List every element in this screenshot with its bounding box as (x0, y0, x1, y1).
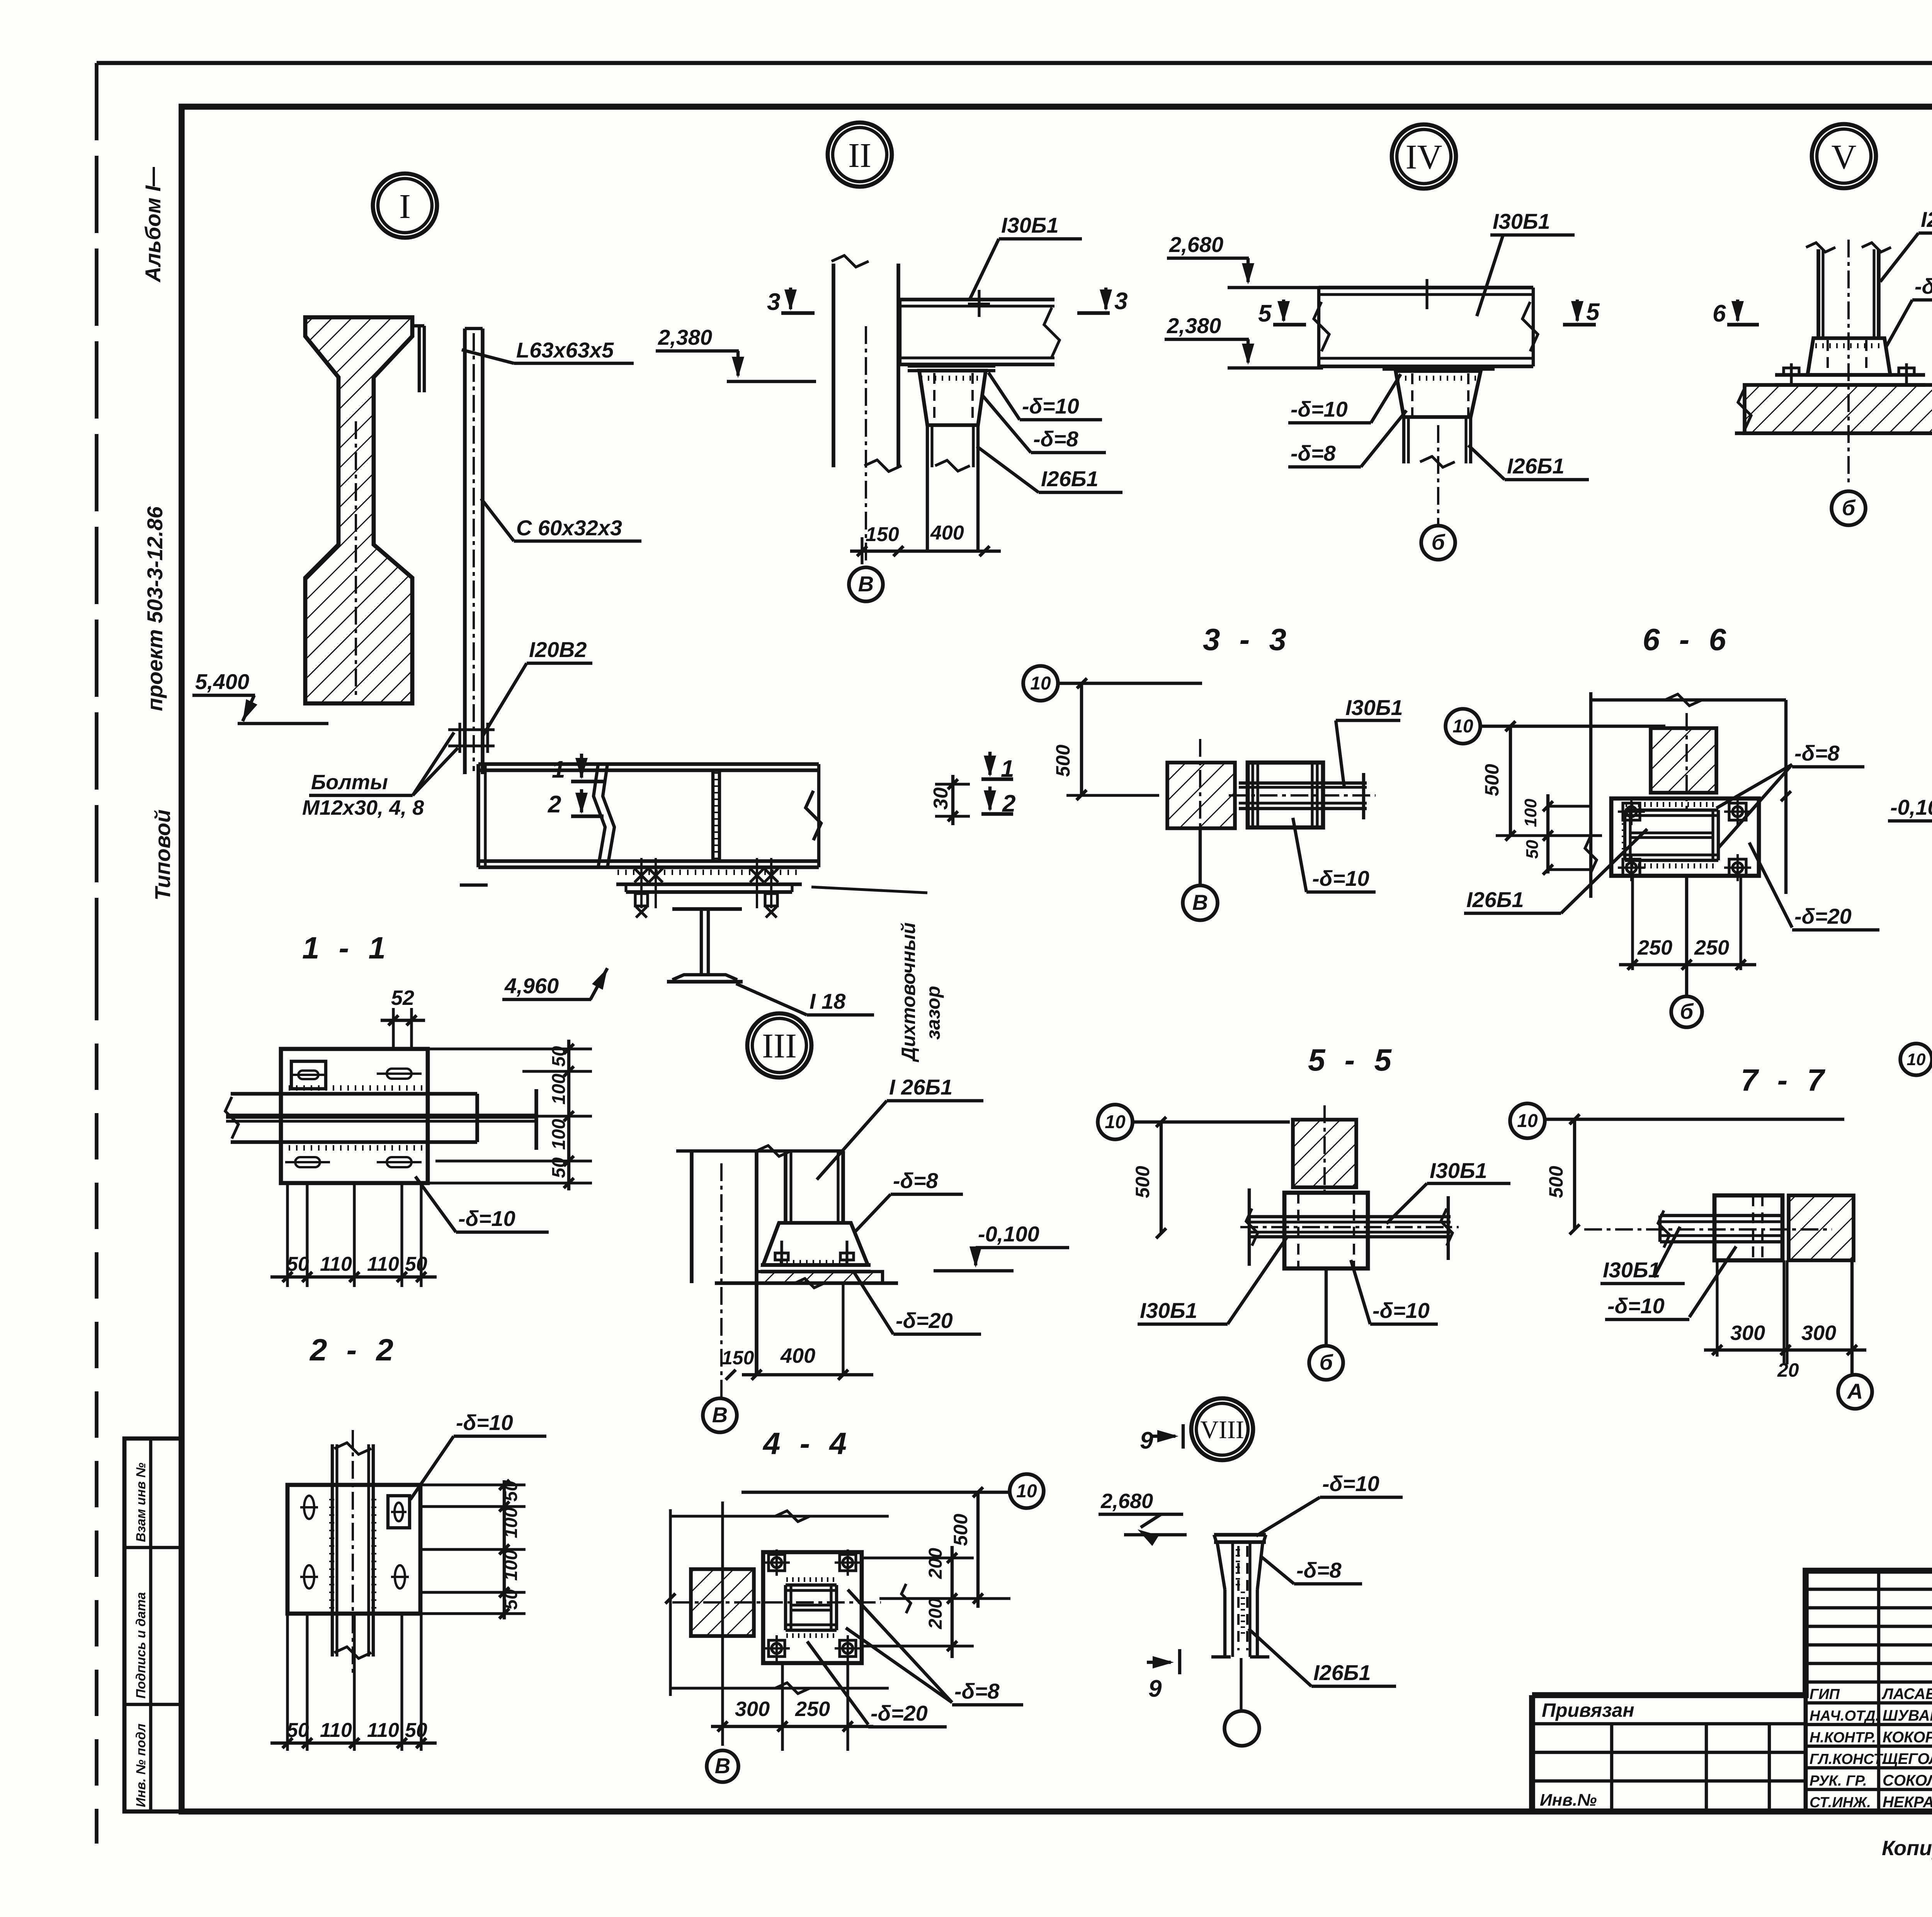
svg-text:-δ=10: -δ=10 (1372, 1298, 1430, 1323)
svg-text:-δ=10: -δ=10 (1022, 394, 1079, 418)
node III marker circle (747, 1013, 811, 1078)
svg-text:52: 52 (391, 986, 414, 1010)
svg-text:50: 50 (405, 1719, 427, 1742)
svg-text:Дихтовочный: Дихтовочный (898, 923, 919, 1062)
svg-text:НАЧ.ОТД.: НАЧ.ОТД. (1810, 1708, 1879, 1724)
svg-text:300: 300 (1730, 1321, 1765, 1345)
svg-text:500: 500 (1132, 1166, 1153, 1198)
svg-text:б: б (1680, 999, 1694, 1023)
svg-text:110: 110 (320, 1719, 352, 1742)
node II column (832, 264, 835, 467)
node IV bracket trapezoid (1383, 368, 1495, 371)
svg-text:250: 250 (1637, 936, 1672, 959)
section 3-3 beam flanges (1239, 781, 1367, 785)
section 1-1 right dimension chain 50-100-100-50 (567, 1040, 570, 1190)
svg-text:-δ=8: -δ=8 (1794, 741, 1840, 765)
node IV axis circle b (1421, 526, 1455, 560)
node II column centre line (865, 326, 867, 565)
section 2-2 right dimension chain (503, 1480, 506, 1619)
node V anchor bolts (1790, 363, 1793, 385)
svg-text:2: 2 (548, 791, 561, 818)
node I channel lower end (460, 884, 488, 887)
svg-text:ШУВАЕВ: ШУВАЕВ (1883, 1707, 1932, 1724)
section 1-1 dimension 52 (392, 1008, 395, 1049)
node IV beam I30B1 (1319, 286, 1533, 289)
svg-text:6 - 6: 6 - 6 (1643, 622, 1731, 657)
node IV support below (1402, 417, 1405, 463)
section 7-7 bottom dimensions 300-300-20 (1716, 1260, 1718, 1357)
section 1-1 gusset plate (281, 1049, 428, 1183)
svg-text:500: 500 (950, 1514, 971, 1546)
svg-text:-δ=8: -δ=8 (893, 1168, 939, 1193)
svg-text:I26Б1: I26Б1 (1313, 1660, 1371, 1685)
node I marker circle (373, 174, 437, 238)
svg-text:В: В (1192, 890, 1208, 914)
svg-text:-δ=20: -δ=20 (1794, 904, 1852, 928)
node III wall (690, 1151, 694, 1283)
section 4-4 base plate plan (763, 1552, 862, 1663)
node I beam I20V2 bottom flange (478, 859, 819, 863)
svg-text:2,680: 2,680 (1169, 232, 1223, 257)
svg-text:4 - 4: 4 - 4 (762, 1426, 852, 1461)
svg-text:КОКОРЕВ: КОКОРЕВ (1883, 1729, 1932, 1746)
svg-text:СОКОЛЬЦОВ: СОКОЛЬЦОВ (1883, 1772, 1932, 1789)
svg-text:150: 150 (866, 523, 899, 546)
svg-text:2,380: 2,380 (658, 325, 712, 349)
node II bearing plate (908, 364, 995, 368)
section 1-1 bottom dimension 50-110-110-50 (270, 1275, 437, 1279)
left stamp boxes (124, 1439, 182, 1811)
section 1-1 slot holes (387, 1069, 412, 1079)
section 6-6 left extension line (1589, 692, 1592, 898)
svg-text:I30Б1: I30Б1 (1140, 1298, 1197, 1323)
svg-text:3 - 3: 3 - 3 (1203, 622, 1292, 657)
section 6-6 concrete column hatched (1651, 728, 1716, 793)
svg-text:20: 20 (1777, 1359, 1799, 1381)
svg-text:I30Б1: I30Б1 (1430, 1158, 1487, 1183)
section 3-3 concrete column hatched (1167, 763, 1235, 828)
node III column I26B1 (784, 1151, 787, 1223)
svg-text:-δ=8: -δ=8 (954, 1679, 1000, 1703)
section 3-3 connection plate (1248, 763, 1323, 827)
svg-text:Альбом I: Альбом I (141, 185, 165, 283)
svg-text:200: 200 (925, 1598, 946, 1629)
section 4-4 axis lines (721, 1502, 724, 1746)
section 1-1 corner stiffener detail (291, 1061, 326, 1089)
svg-text:9: 9 (1140, 1427, 1153, 1454)
svg-text:3: 3 (767, 289, 780, 315)
svg-text:30: 30 (930, 787, 952, 810)
title block signature grid (1804, 1571, 1808, 1811)
section 4-4 axis circle V (707, 1750, 738, 1782)
svg-text:А: А (1847, 1379, 1863, 1403)
node II marker circle (828, 123, 892, 187)
node V axis circle b (1832, 491, 1866, 525)
svg-text:I 26Б1: I 26Б1 (889, 1075, 952, 1099)
node V bracket trapezoid (1808, 338, 1890, 375)
svg-text:НЕКРАСОВА: НЕКРАСОВА (1883, 1794, 1932, 1811)
svg-text:50: 50 (549, 1157, 569, 1178)
svg-text:РУК. ГР.: РУК. ГР. (1810, 1773, 1867, 1789)
svg-text:9: 9 (1148, 1675, 1162, 1702)
node II section mark 3 right (1104, 288, 1107, 309)
svg-text:I30Б1: I30Б1 (1493, 209, 1550, 233)
svg-text:110: 110 (320, 1253, 352, 1275)
node I splice lower plate (626, 890, 792, 894)
svg-text:-0,100: -0,100 (1890, 795, 1932, 819)
svg-text:50: 50 (501, 1589, 521, 1610)
svg-text:I26Б1: I26Б1 (1921, 207, 1932, 232)
svg-text:Копировал: Копировал (1882, 1837, 1932, 1860)
section 5-5 connection plate (1284, 1193, 1368, 1268)
section 3-3 axis circle 10 (1023, 666, 1058, 701)
section 6-6 channel welded (1625, 809, 1718, 812)
node VIII section mark 9 lower (1147, 1661, 1171, 1664)
svg-text:ГЛ.КОНСТ.: ГЛ.КОНСТ. (1810, 1751, 1886, 1767)
node VIII marker circle (1191, 1398, 1253, 1460)
node II dimension 150-400 (850, 550, 1001, 553)
svg-text:5,400: 5,400 (195, 669, 249, 694)
svg-text:I26Б1: I26Б1 (1507, 454, 1565, 478)
section 2-2 channel vertical (331, 1444, 334, 1657)
node VIII axis line (1240, 1658, 1242, 1711)
svg-text:-δ=10: -δ=10 (1291, 397, 1348, 421)
svg-text:300: 300 (735, 1697, 770, 1721)
svg-text:б: б (1320, 1350, 1333, 1374)
node I splice nuts (635, 894, 648, 906)
node V marker circle (1812, 124, 1876, 188)
node VIII column body (1223, 1590, 1226, 1657)
svg-text:50: 50 (405, 1253, 427, 1275)
node I splice cover plate (616, 882, 802, 886)
section 4-4 dimension 500 (976, 1492, 980, 1608)
svg-text:-δ=10: -δ=10 (456, 1410, 513, 1435)
svg-text:I 18: I 18 (810, 989, 846, 1013)
svg-text:100: 100 (549, 1119, 569, 1150)
svg-text:б: б (1842, 495, 1856, 520)
svg-text:Подпись и дата: Подпись и дата (134, 1592, 148, 1699)
svg-text:I20В2: I20В2 (529, 637, 587, 662)
svg-text:VIII: VIII (1200, 1416, 1244, 1444)
svg-text:2 - 2: 2 - 2 (309, 1333, 399, 1367)
svg-text:100: 100 (501, 1507, 521, 1538)
section 5-5 axis circle 10 (1098, 1105, 1133, 1139)
node I gap dimension 30 (951, 775, 954, 825)
svg-text:10: 10 (1452, 716, 1473, 737)
node I concrete beam cross-section (hatched) (305, 317, 412, 703)
svg-text:50: 50 (549, 1046, 569, 1067)
section 4-4 channel welded (786, 1583, 837, 1587)
svg-text:Болты: Болты (311, 771, 388, 794)
node I channel C60x32x3 (463, 329, 467, 774)
section 1-1 beam web line (226, 1113, 536, 1119)
svg-text:ЩЕГОЛЕВ: ЩЕГОЛЕВ (1883, 1750, 1932, 1767)
svg-text:L63х63х5: L63х63х5 (516, 338, 614, 362)
node IV marker circle (1392, 124, 1456, 189)
svg-text:10: 10 (1517, 1111, 1538, 1131)
node IV axis line (1437, 425, 1439, 526)
section 6-6 dimension 100-50 chain (1546, 794, 1549, 873)
svg-text:5: 5 (1258, 300, 1272, 327)
section 6-6 right extension line (1784, 700, 1787, 894)
svg-text:300: 300 (1801, 1321, 1836, 1345)
section 5-5 axis circle b (1325, 1268, 1328, 1346)
node V concrete foundation hatched (1745, 385, 1932, 433)
svg-text:I30Б1: I30Б1 (1603, 1258, 1660, 1282)
node I beam I20V2 top flange (478, 762, 819, 766)
section 3-3 dimension 500 (1080, 683, 1083, 795)
section 6-6 base plate plan (1611, 798, 1759, 876)
title block: pривязан cell lines (1532, 1722, 1806, 1725)
svg-text:I30Б1: I30Б1 (1345, 695, 1403, 720)
svg-text:проект 503-3-12.86: проект 503-3-12.86 (143, 506, 167, 711)
node III dimension 150-400 (842, 1283, 844, 1376)
svg-text:150: 150 (722, 1347, 754, 1369)
svg-text:ГИП: ГИП (1810, 1686, 1840, 1702)
svg-text:200: 200 (925, 1548, 946, 1579)
section 4-4 axis circle 10 (1010, 1474, 1044, 1508)
svg-text:10: 10 (1016, 1481, 1037, 1502)
svg-text:250: 250 (795, 1697, 830, 1721)
section 2-2 corner plate with slot (388, 1496, 410, 1528)
svg-text:I26Б1: I26Б1 (1466, 887, 1524, 912)
node III foundation hatched (757, 1272, 883, 1283)
svg-text:В: В (715, 1754, 730, 1778)
svg-text:Типовой: Типовой (150, 809, 175, 901)
section 6-6 axis circle 10 (1446, 709, 1480, 744)
section 5-5 dimension 500 (1160, 1122, 1163, 1233)
svg-text:СТ.ИНЖ.: СТ.ИНЖ. (1810, 1794, 1871, 1811)
svg-text:В: В (712, 1403, 728, 1427)
node I beam break right (806, 791, 821, 840)
svg-text:10: 10 (1105, 1112, 1126, 1132)
svg-text:Привязан: Привязан (1542, 1699, 1634, 1721)
section 5-5 concrete column hatched (1293, 1120, 1356, 1187)
node III anchor bolts (780, 1241, 783, 1265)
node II bracket trapezoid (919, 371, 986, 425)
svg-text:-δ=10: -δ=10 (1312, 866, 1369, 890)
node II axis circle V (849, 567, 883, 601)
svg-text:50: 50 (1523, 840, 1542, 859)
section 7-7 dimension 500 (1573, 1119, 1576, 1229)
section 6-6 top extension line (1591, 698, 1786, 701)
svg-text:С 60х32х3: С 60х32х3 (516, 516, 622, 540)
svg-text:400: 400 (780, 1344, 815, 1367)
section 7-7 connection plate (1714, 1195, 1782, 1260)
svg-text:500: 500 (1052, 744, 1074, 777)
node VIII column bottom bars (1211, 1655, 1231, 1658)
node III base trapezoid (763, 1223, 868, 1265)
node VIII column head taper (1217, 1542, 1225, 1590)
node I beam end plate left (476, 764, 480, 867)
node V column centre line (1847, 240, 1850, 485)
node III axis circle V (703, 1398, 737, 1432)
svg-text:1: 1 (552, 756, 565, 783)
svg-text:-δ=8: -δ=8 (1296, 1558, 1342, 1582)
svg-text:-δ=8: -δ=8 (1033, 427, 1079, 451)
svg-text:I30Б1: I30Б1 (1001, 213, 1059, 237)
svg-text:2,380: 2,380 (1167, 313, 1221, 338)
svg-text:зазор: зазор (922, 986, 944, 1040)
section 7-7 gap 20 (1787, 1195, 1790, 1260)
section 1-1 bottom extension lines (286, 1183, 289, 1287)
section 6-6 axis circle b (1685, 876, 1688, 996)
section 4-4 concrete column hatched (691, 1569, 754, 1636)
svg-text:10: 10 (1907, 1050, 1926, 1069)
svg-text:5: 5 (1586, 299, 1600, 325)
section 4-4 dimension 200-200 (951, 1546, 954, 1658)
node I angle L63x63x5 plate (418, 326, 421, 392)
node I beam stiffener (711, 770, 714, 861)
node VIII axis circle empty (1225, 1711, 1259, 1746)
section 2-2 slot holes (304, 1496, 314, 1519)
node I splice bolts (634, 868, 648, 882)
sheet outer border left line (dashed scan) (95, 63, 99, 974)
node IV beam centre cross (1425, 279, 1428, 309)
svg-text:-δ=10: -δ=10 (1607, 1294, 1665, 1318)
svg-text:IV: IV (1406, 138, 1442, 176)
svg-text:50: 50 (501, 1481, 521, 1502)
svg-text:-0,100: -0,100 (978, 1222, 1039, 1246)
section 7-7 axis circle A (1850, 1260, 1854, 1375)
svg-text:110: 110 (367, 1253, 399, 1275)
svg-text:-δ=8: -δ=8 (1915, 274, 1932, 298)
svg-text:-δ=20: -δ=20 (871, 1701, 928, 1725)
title block outline (1532, 1571, 1932, 1695)
svg-text:500: 500 (1545, 1166, 1567, 1198)
svg-text:7 - 7: 7 - 7 (1741, 1063, 1830, 1097)
node I beam mid break (594, 764, 605, 867)
section 7-7 concrete column hatched (1789, 1195, 1854, 1260)
svg-text:400: 400 (930, 522, 964, 544)
node V base plate (1775, 373, 1925, 377)
svg-text:4,960: 4,960 (504, 974, 559, 998)
svg-text:2,680: 2,680 (1100, 1490, 1153, 1513)
node IV section mark 5 right (1576, 300, 1579, 321)
svg-text:Н.КОНТР.: Н.КОНТР. (1810, 1730, 1876, 1746)
node II support column below (926, 425, 929, 551)
section 4-4 bottom dimensions 300-250 (781, 1663, 784, 1751)
svg-text:50: 50 (287, 1719, 309, 1742)
svg-text:500: 500 (1481, 764, 1503, 796)
svg-text:Взам инв №: Взам инв № (134, 1462, 148, 1542)
svg-text:III: III (762, 1027, 797, 1065)
svg-text:1 - 1: 1 - 1 (302, 931, 391, 965)
section 6-6 corner bolts (1623, 803, 1640, 820)
svg-text:100: 100 (1521, 798, 1540, 827)
section 2-2 bottom extension lines (286, 1614, 289, 1751)
svg-text:100: 100 (549, 1074, 569, 1105)
svg-text:50: 50 (287, 1253, 309, 1275)
svg-text:Инв. № подл: Инв. № подл (134, 1723, 148, 1807)
svg-text:б: б (1432, 530, 1446, 554)
svg-text:-δ=10: -δ=10 (1322, 1471, 1379, 1496)
node I beam centre line (355, 421, 357, 696)
svg-text:5 - 5: 5 - 5 (1308, 1043, 1397, 1077)
node III top line with break (676, 1149, 844, 1153)
section 6-6 bottom dimension 250-250 (1631, 876, 1634, 970)
svg-text:Инв.№: Инв.№ (1540, 1791, 1597, 1810)
svg-text:ЛАСАЕВ: ЛАСАЕВ (1881, 1685, 1932, 1702)
sheet outer border top line (97, 61, 1932, 65)
svg-text:-δ=8: -δ=8 (1291, 441, 1336, 465)
section 4-4 outer extension frame (669, 1509, 672, 1696)
svg-text:М12х30, 4, 8: М12х30, 4, 8 (302, 796, 424, 819)
section 2-2 weld teeth on channel (329, 1500, 334, 1608)
node I beam I18 below (672, 907, 742, 911)
svg-text:В: В (858, 572, 874, 596)
svg-text:II: II (848, 136, 871, 175)
node I channel-to-beam bolts (448, 728, 495, 731)
node V column (1816, 249, 1820, 338)
section 2-2 bottom dimension 50-110-110-50 (270, 1742, 437, 1745)
section 8-8 axis circle 10 (1900, 1044, 1932, 1075)
svg-text:I: I (399, 187, 411, 226)
section 3-3 axis circle V (1199, 828, 1202, 885)
node III base plate (761, 1263, 871, 1267)
section 2-2 gusset plate (287, 1485, 420, 1614)
svg-text:I26Б1: I26Б1 (1041, 466, 1099, 491)
svg-text:10: 10 (1030, 673, 1051, 694)
svg-text:110: 110 (367, 1719, 399, 1742)
section 1-1 weld teeth (282, 1085, 422, 1091)
node II beam I30B1 (900, 298, 1054, 301)
node II beam centre cross (978, 290, 980, 317)
svg-text:-δ=20: -δ=20 (896, 1308, 953, 1333)
svg-text:6: 6 (1713, 300, 1726, 327)
svg-text:-δ=10: -δ=10 (458, 1206, 515, 1231)
svg-text:3: 3 (1114, 288, 1128, 315)
node VIII column head top plate (1214, 1533, 1266, 1537)
section 5-5 beam flange lines (1248, 1215, 1451, 1218)
svg-text:250: 250 (1694, 936, 1729, 959)
section 7-7 axis circle 10 (1510, 1103, 1545, 1138)
section 7-7 beam flange lines (1660, 1214, 1782, 1217)
svg-text:V: V (1832, 138, 1857, 176)
section 1-1 beam flange strip (231, 1092, 477, 1096)
section 6-6 dimension 500 (1509, 726, 1512, 836)
svg-text:100: 100 (501, 1550, 521, 1581)
section 4-4 corner bolts (769, 1554, 785, 1571)
